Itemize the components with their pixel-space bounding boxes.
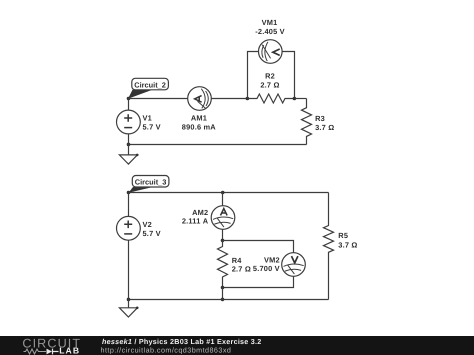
ammeter AM1 — [182, 87, 217, 132]
wire: AM1 to node B — [211, 98, 247, 100]
footer bar — [0, 336, 474, 355]
svg-text:2.111 A: 2.111 A — [182, 216, 209, 225]
svg-text:5.7 V: 5.7 V — [143, 122, 161, 131]
voltage source V1 — [116, 99, 160, 145]
svg-text:890.6 mA: 890.6 mA — [182, 123, 217, 132]
wire: VM1 right branch — [282, 52, 294, 99]
node: V2 top junction — [127, 191, 131, 195]
svg-text:Circuit_3: Circuit_3 — [135, 178, 167, 187]
node: V1 top junction — [127, 97, 131, 101]
svg-text:V1: V1 — [143, 114, 152, 123]
wire: VM2 bottom branch — [223, 276, 294, 287]
svg-text:3.7 Ω: 3.7 Ω — [338, 240, 357, 249]
wire: node C to R3 top — [294, 98, 306, 100]
svg-text:hessek1 / Physics 2B03 Lab #1: hessek1 / Physics 2B03 Lab #1 Exercise 3… — [102, 337, 262, 346]
svg-text:Circuit_2: Circuit_2 — [134, 80, 166, 89]
svg-text:VM1: VM1 — [262, 18, 278, 27]
resistor R5 — [324, 193, 358, 300]
svg-text:http://circuitlab.com/cqd3bmtd: http://circuitlab.com/cqd3bmtd863xd — [101, 346, 232, 355]
svg-text:VM2: VM2 — [264, 256, 280, 265]
voltage source V2 — [116, 193, 160, 300]
wire: R4 bottom to rail — [222, 288, 224, 300]
voltmeter VM2 — [253, 253, 305, 277]
wire: V1 top to AM1 — [129, 98, 188, 100]
net label Circuit_3 — [129, 176, 169, 193]
ammeter AM2 — [182, 193, 235, 241]
node: R4 bottom rail junction — [221, 298, 225, 302]
wire: VM2 top branch — [223, 241, 294, 253]
node: V1 bottom junction — [127, 143, 131, 147]
footer title text — [102, 337, 262, 346]
svg-text:5.700 V: 5.700 V — [253, 264, 280, 273]
node: V2 bottom junction — [127, 298, 131, 302]
svg-text:3.7 Ω: 3.7 Ω — [315, 123, 334, 132]
footer url text — [101, 346, 232, 355]
svg-text:2.7 Ω: 2.7 Ω — [232, 265, 251, 274]
wire: circuit 3 top rail — [129, 192, 329, 194]
svg-text:LAB: LAB — [59, 346, 80, 355]
svg-text:R5: R5 — [338, 231, 348, 240]
ground: circuit 3 — [119, 300, 138, 318]
resistor R3 — [302, 99, 335, 145]
node: R4/VM2 bottom junction — [221, 286, 225, 290]
node: AM2 top junction — [221, 191, 225, 195]
svg-text:-2.405 V: -2.405 V — [255, 27, 285, 36]
resistor R4 — [218, 241, 251, 288]
svg-text:2.7 Ω: 2.7 Ω — [260, 81, 279, 90]
net label Circuit_2 — [128, 78, 168, 99]
wire: circuit 3 bottom rail — [129, 299, 329, 301]
ground: circuit 2 — [119, 145, 138, 165]
voltmeter VM1 — [255, 18, 285, 63]
node C: R2/VM1/R3 junction — [293, 97, 297, 101]
footer logo CIRCUIT LAB — [22, 337, 81, 355]
svg-text:V2: V2 — [143, 220, 152, 229]
node B: AM1/R2/VM1 junction — [246, 97, 250, 101]
svg-text:5.7 V: 5.7 V — [143, 229, 161, 238]
svg-text:R2: R2 — [265, 72, 275, 81]
wire: circuit 2 bottom rail — [129, 144, 307, 146]
svg-text:AM1: AM1 — [191, 114, 207, 123]
svg-text:R4: R4 — [232, 256, 243, 265]
node: AM2/R4/VM2 junction — [221, 239, 225, 243]
svg-text:R3: R3 — [315, 114, 325, 123]
wire: VM1 left branch — [248, 52, 259, 99]
resistor R2 — [248, 72, 295, 103]
